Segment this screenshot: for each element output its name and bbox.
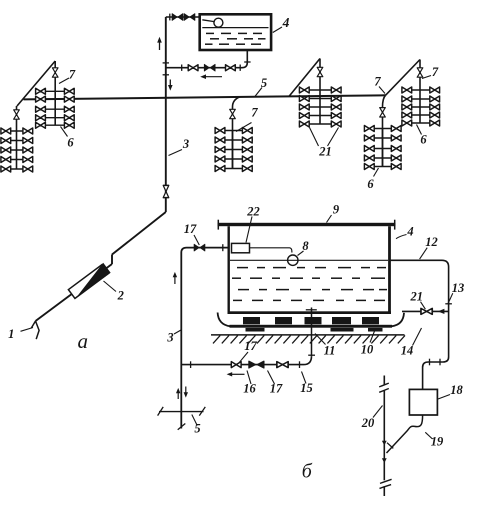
valve 17a on drain line: [231, 362, 241, 368]
end slash of pipe 3: [178, 424, 186, 430]
svg-text:17: 17: [270, 382, 283, 396]
manifold F branch 1 with end valves: [402, 87, 441, 93]
tick on outlet line right: [239, 65, 241, 71]
leader to manifold F: [417, 125, 422, 135]
manifold A branch 5 with end valves: [1, 166, 34, 172]
pump box 18: [409, 389, 437, 415]
tank b bottom: [228, 311, 392, 314]
valve on outlet line: [188, 65, 198, 71]
tick at tank wall inlet: [222, 244, 224, 251]
leader to runner 10: [370, 329, 376, 343]
slash on hose 19: [387, 443, 393, 449]
manifold B branch 3 with end valves: [36, 106, 75, 112]
manifold F branch 4 with end valves: [402, 112, 441, 118]
left ski tip: [218, 313, 231, 327]
manifold F branch 2 with end valves: [402, 96, 441, 102]
water dashes tank b: [232, 268, 387, 301]
svg-text:5: 5: [194, 422, 200, 436]
leader to pipe 12: [420, 248, 428, 259]
up flow arrow on pipe 3: [173, 272, 177, 284]
svg-text:18: 18: [450, 383, 463, 397]
leader to pipe 20: [373, 406, 383, 418]
svg-text:4: 4: [282, 15, 290, 30]
support blocks 10: [243, 317, 379, 324]
manifold E branch 4 with end valves: [364, 155, 402, 161]
leader right to manifold D: [328, 128, 339, 147]
pads under runner: [246, 328, 383, 332]
manifold B branch 5 with end valves: [36, 122, 75, 128]
up flow arrow at pipe 3 bottom: [176, 388, 180, 399]
manifold D branch 5 with end valves: [299, 121, 342, 127]
right break slash: [199, 407, 205, 416]
leader to valve 17b: [268, 371, 275, 385]
riser valve 7 of manifold B: [52, 68, 58, 77]
float lever arm: [250, 248, 292, 253]
valve 16 on drain line: [249, 361, 264, 368]
manifold A branch 2 with end valves: [1, 138, 34, 144]
ground hatching: [213, 335, 405, 343]
manifold C riser pipe: [232, 131, 234, 169]
manifold A branch 1 with end valves: [1, 128, 34, 134]
riser pipe to manifold E: [383, 95, 386, 166]
manifold E branch 5 with end valves: [364, 164, 402, 170]
svg-text:21: 21: [318, 145, 332, 159]
crossing line to line 5: [159, 411, 204, 413]
valve on main vertical pipe: [163, 185, 169, 197]
manifold B branch 1 with end valves: [36, 88, 75, 94]
flow arrow under outlet line: [200, 74, 222, 79]
tick on vertical pipe lower: [163, 74, 169, 76]
svg-text:19: 19: [431, 435, 444, 449]
leader to crossing: [192, 415, 197, 426]
diagonal feed pipe to manifold F: [386, 60, 421, 96]
tick above drain elbow: [308, 354, 315, 356]
leader to cover 9: [327, 215, 332, 223]
leader left to manifold D: [310, 128, 319, 147]
leader to float valve 22: [246, 217, 252, 243]
tick on outlet line left: [181, 65, 183, 71]
tick on pipe to box left: [429, 359, 431, 366]
suction pipe upper diagonal: [112, 212, 166, 255]
left break slash: [158, 407, 164, 416]
riser valve of manifold A: [14, 110, 20, 119]
manifold A branch 3 with end valves: [1, 147, 34, 153]
pipe from riser to tank 4 top: [166, 16, 200, 18]
leader to manifold B: [61, 127, 68, 137]
check valve on outlet line: [204, 64, 215, 71]
valve 21 on line 14: [421, 308, 432, 314]
leader to junction 13: [448, 293, 453, 303]
well pipe 20 main: [383, 391, 385, 481]
float ball 8: [288, 255, 298, 265]
svg-text:7: 7: [432, 65, 439, 79]
down arrow on pipe 20 upper: [382, 441, 387, 446]
down arrow on pipe 20 lower: [382, 458, 387, 463]
leader to drain stack 11: [315, 334, 326, 345]
cover left end cap: [217, 220, 219, 230]
down flow arrow at pipe 3 bottom: [184, 387, 188, 398]
svg-text:10: 10: [361, 343, 374, 357]
leader to inlet valve: [194, 235, 199, 245]
svg-text:4: 4: [406, 225, 413, 239]
tank b right wall: [388, 226, 391, 312]
tank outlet pipe with elbow: [166, 50, 248, 68]
suction strainer fork: [31, 321, 39, 339]
svg-text:17: 17: [184, 222, 197, 236]
well pipe 20 upper: [383, 376, 385, 386]
water level line in tank 4: [202, 27, 268, 29]
well pipe 20 bottom: [383, 486, 385, 496]
skid runner 11 bar: [230, 325, 393, 328]
manifold E branch 3 with end valves: [364, 146, 402, 152]
leader to hose 19: [425, 432, 432, 439]
svg-text:б: б: [302, 461, 313, 483]
manifold B branch 4 with end valves: [36, 115, 75, 121]
riser pipe top manifold A: [16, 106, 18, 131]
svg-text:6: 6: [367, 177, 374, 191]
tick on tank feed pipe: [169, 14, 171, 21]
water dashes in tank 4: [205, 33, 266, 44]
main distribution line 5: [24, 95, 386, 99]
riser pipe top manifold B: [54, 61, 56, 91]
riser pipe top manifold D: [319, 59, 321, 91]
leader to tank b wall: [396, 235, 407, 239]
manifold D branch 2 with end valves: [299, 96, 342, 102]
pump 2 (ejector): [68, 263, 111, 299]
svg-text:7: 7: [374, 75, 381, 89]
leader to pump 2: [104, 281, 117, 292]
tick at tank outlet elbow: [244, 61, 250, 63]
tick on drain stack top: [306, 309, 317, 311]
manifold C branch 5 with end valves: [215, 166, 254, 172]
manifold B riser pipe: [54, 91, 56, 125]
svg-text:22: 22: [246, 205, 260, 219]
svg-text:7: 7: [251, 105, 258, 119]
leader to manifold E: [374, 168, 379, 177]
manifold A branch 4 with end valves: [1, 157, 34, 163]
ground line: [211, 334, 405, 336]
manifold E branch 1 with end valves: [364, 126, 402, 132]
drain line from pipe 3 up into tank: [181, 356, 311, 365]
svg-text:6: 6: [67, 136, 74, 150]
cover right end cap: [394, 220, 396, 230]
float lever in tank 4: [202, 20, 214, 22]
manifold D branch 1 with end valves: [299, 87, 342, 93]
up flow arrow beside vertical pipe: [157, 37, 162, 50]
tank b left wall: [227, 226, 229, 312]
suction pipe lower diagonal: [36, 264, 113, 321]
leader to tank 4: [273, 27, 282, 33]
leader to strainer: [21, 328, 34, 332]
tick on pipe to box right: [439, 359, 441, 366]
leader to riser manifold B: [59, 78, 69, 84]
manifold E branch 2 with end valves: [364, 135, 402, 141]
line 14 horizontal: [402, 310, 449, 312]
tank cover 9: [218, 223, 396, 226]
manifold F riser pipe: [419, 90, 421, 123]
svg-text:12: 12: [425, 235, 438, 249]
down flow arrow beside vertical pipe: [168, 80, 173, 91]
svg-text:3: 3: [166, 331, 173, 345]
manifold E riser pipe: [382, 129, 384, 167]
pipe 12 overflow: [391, 260, 449, 389]
manifold C branch 1 with end valves: [215, 128, 254, 134]
pipe 3 vertical (part b): [181, 248, 228, 429]
manifold C branch 2 with end valves: [215, 137, 254, 143]
tank drain stack 11: [311, 308, 313, 357]
manifold A riser pipe: [16, 131, 18, 169]
svg-text:17: 17: [244, 339, 257, 353]
right ski tip: [392, 313, 405, 327]
leader to junction: [379, 87, 385, 94]
flow arrow under drain line: [227, 372, 245, 376]
manifold D riser pipe: [319, 90, 321, 124]
svg-text:3: 3: [182, 137, 189, 151]
svg-text:16: 16: [243, 382, 256, 396]
leader to outlet 15: [302, 372, 307, 384]
tick on drain line right: [299, 361, 301, 368]
tick on vertical pipe upper: [163, 62, 169, 64]
leader to float 8: [298, 251, 304, 256]
svg-text:11: 11: [324, 344, 336, 358]
leader to line 5: [255, 88, 262, 97]
main vertical pipe (part a): [165, 17, 167, 212]
svg-text:9: 9: [333, 203, 340, 217]
tick on pipe 13 vertical: [445, 303, 452, 305]
valve 17 on tank inlet: [194, 244, 205, 251]
svg-text:7: 7: [69, 68, 76, 82]
leader to pipe 3 part b: [174, 330, 181, 334]
pipe 20 break lower: [380, 479, 392, 488]
valve pair on tank feed pipe: [172, 14, 195, 21]
manifold F branch 3 with end valves: [402, 104, 441, 110]
supply tank 4 (part a): [200, 14, 271, 50]
valve 17b on drain line: [277, 362, 288, 368]
leader to line 14: [413, 328, 422, 346]
valve on outlet line right: [226, 65, 236, 71]
diagonal feed pipe to manifold D: [289, 59, 320, 97]
riser pipe top manifold F: [419, 60, 421, 91]
leader to valve 16: [247, 371, 251, 385]
leader to pipe 3 part a: [169, 150, 183, 156]
riser valve of manifold F: [417, 68, 423, 77]
water level line tank b: [230, 259, 388, 261]
leader to drain valve 17: [239, 352, 248, 363]
pipe 20 break upper: [379, 383, 389, 392]
riser valve of manifold E: [380, 108, 386, 117]
manifold F branch 5 with end valves: [402, 120, 441, 126]
svg-text:21: 21: [410, 290, 424, 304]
diagonal feed pipe to left manifolds: [17, 61, 55, 106]
riser valve of manifold C: [230, 109, 236, 118]
leader to riser manifold F: [422, 76, 431, 79]
manifold C branch 3 with end valves: [215, 147, 254, 153]
svg-text:14: 14: [401, 344, 414, 358]
manifold B branch 2 with end valves: [36, 96, 75, 102]
float valve 22 body: [232, 243, 250, 252]
float ball in tank 4: [214, 18, 223, 27]
leader to box 18: [438, 395, 450, 400]
manifold C branch 4 with end valves: [215, 156, 254, 162]
riser pipe to manifold C: [233, 97, 241, 169]
svg-text:1: 1: [8, 327, 14, 341]
suction pipe jog: [111, 255, 113, 265]
riser valve of manifold D: [317, 67, 323, 76]
svg-text:15: 15: [300, 381, 313, 395]
leader to riser manifold C: [236, 123, 252, 132]
leader to valve 21: [421, 302, 426, 310]
svg-text:2: 2: [117, 289, 124, 303]
svg-text:а: а: [78, 329, 89, 353]
svg-text:20: 20: [361, 416, 375, 430]
manifold D branch 4 with end valves: [299, 113, 342, 119]
svg-text:13: 13: [452, 281, 465, 295]
tick on drain line left: [190, 361, 192, 368]
hose 19 from box 18: [387, 415, 423, 453]
svg-text:6: 6: [420, 133, 427, 147]
flow arrow on line 14: [438, 309, 445, 314]
manifold D branch 3 with end valves: [299, 104, 342, 110]
